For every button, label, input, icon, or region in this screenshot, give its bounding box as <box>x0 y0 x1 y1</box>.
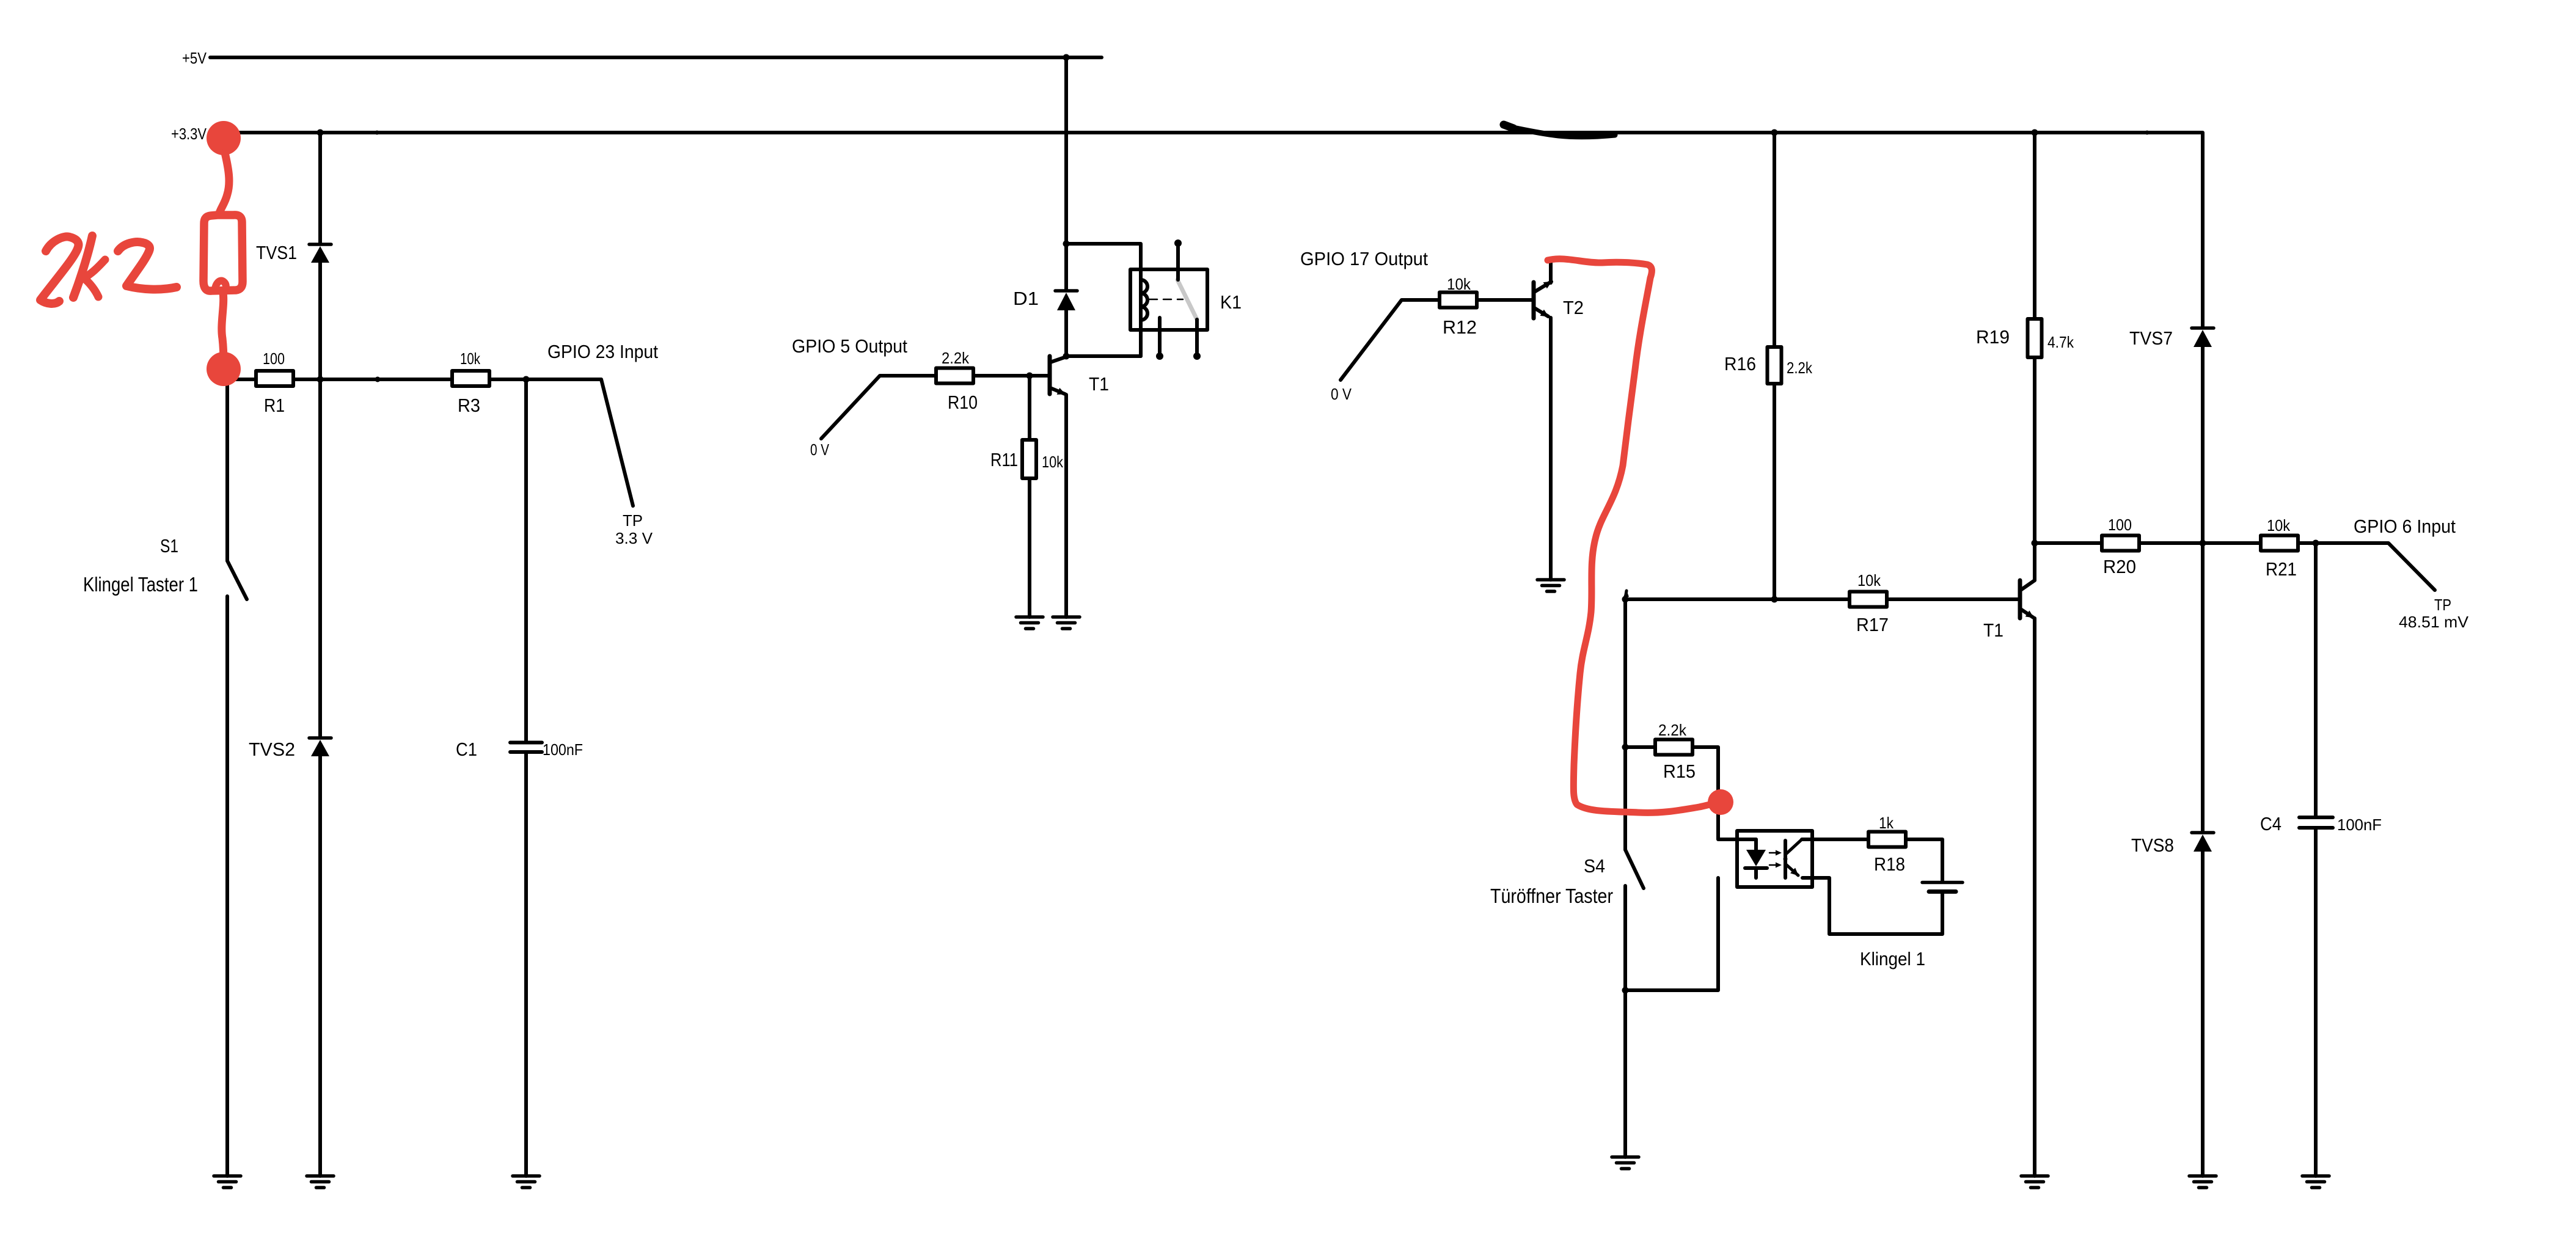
wire S4 branch upper <box>1623 599 1627 850</box>
node junction T1 collector / relay coil bottom <box>1063 353 1070 360</box>
wire C1 branch upper <box>524 379 528 741</box>
wire TVS1 branch upper <box>318 133 322 243</box>
relay K1 switch blade (grey) <box>1177 280 1197 319</box>
svg-text:T1: T1 <box>1983 619 2003 641</box>
svg-text:2.2k: 2.2k <box>1658 721 1687 739</box>
svg-text:+3.3V: +3.3V <box>171 125 207 143</box>
node stray dot on rail <box>375 131 379 135</box>
ground R11 <box>1016 617 1043 629</box>
+3.3V rail wire <box>210 133 2203 243</box>
node junction +5V / relay branch <box>1063 54 1070 61</box>
svg-text:2.2k: 2.2k <box>942 349 970 367</box>
relay K1 NC pin bottom middle <box>1158 318 1162 356</box>
node junction R11 branch <box>1026 373 1033 379</box>
svg-text:TVS1: TVS1 <box>256 242 297 263</box>
red annotation: node dot on +3.3V rail <box>40 121 1733 815</box>
wire R16 branch upper <box>1773 133 1776 345</box>
resistor R1 <box>256 371 293 386</box>
svg-text:GPIO 6 Input: GPIO 6 Input <box>2354 516 2456 537</box>
hand-drawn black correction on rail <box>1504 126 1615 137</box>
svg-text:R19: R19 <box>1976 326 2010 348</box>
wire R15 to opto anode <box>1692 747 1756 839</box>
optocoupler LED <box>1745 839 1767 878</box>
wire R11 to ground <box>1028 480 1031 617</box>
svg-text:TP: TP <box>2434 596 2451 614</box>
svg-text:GPIO 23 Input: GPIO 23 Input <box>547 341 658 362</box>
wire T1 emitter to ground <box>2033 618 2036 1176</box>
resistor R19 (vertical) <box>2028 319 2042 357</box>
svg-text:0 V: 0 V <box>810 440 830 459</box>
ground T1 right <box>2021 1176 2048 1188</box>
red annotation: node dot at S1/R1 junction <box>207 352 241 386</box>
node junction R15 tap <box>1622 744 1629 751</box>
wire C4 to ground <box>2314 828 2318 1176</box>
battery Klingel 1 <box>1922 883 1963 892</box>
wire TVS7 to TVS8 <box>2201 347 2205 831</box>
node junction R19 / R20 wire <box>2032 540 2038 547</box>
node junction rail/TVS1 <box>317 130 324 136</box>
wire R19 to R20 node <box>2033 359 2036 543</box>
node junction TVS line / R1 wire <box>317 376 324 383</box>
wire R21 to GPIO6 TP lead <box>2298 543 2435 590</box>
wire R18 to battery top <box>1906 839 1942 881</box>
wire +5V down to relay section <box>1064 57 1068 244</box>
resistor R12 <box>1440 293 1477 308</box>
wire relay coil bottom feed <box>1066 354 1141 358</box>
red annotation: long marker line from T2 collector to S4 node <box>1548 259 1720 813</box>
svg-text:T1: T1 <box>1089 373 1109 395</box>
red annotation: handwritten 2 <box>40 236 78 304</box>
relay K1 box <box>1130 269 1207 330</box>
wire TVS2 to ground <box>318 756 322 1176</box>
svg-text:Klingel Taster 1: Klingel Taster 1 <box>83 573 198 596</box>
red annotation: hand-drawn resistor body <box>203 215 243 291</box>
wire R11 branch upper <box>1028 376 1031 438</box>
svg-text:S4: S4 <box>1584 855 1605 877</box>
red annotation: handwritten k <box>73 236 92 298</box>
capacitor C4 <box>2299 817 2333 828</box>
red annotation: pen loop at resistor bottom <box>215 280 226 291</box>
wire R16 to base net <box>1773 385 1776 599</box>
wire S1/R1 net horizontal <box>224 378 254 381</box>
wire GPIO17 lead diagonal <box>1341 300 1441 380</box>
relay K1 common pin top <box>1176 243 1180 280</box>
svg-text:TVS7: TVS7 <box>2129 327 2173 349</box>
switch S4 lower wire <box>1623 886 1627 1157</box>
red annotation: lead squiggle resistor to node <box>222 293 224 364</box>
svg-text:10k: 10k <box>1857 571 1881 590</box>
svg-text:Türöffner Taster: Türöffner Taster <box>1490 885 1613 907</box>
pin dot bottom right <box>1193 352 1201 360</box>
svg-text:R20: R20 <box>2103 556 2136 577</box>
wire R1 to R3 <box>293 378 450 381</box>
svg-text:R11: R11 <box>990 449 1018 470</box>
svg-text:D1: D1 <box>1013 288 1039 309</box>
node junction rail/R19 <box>2032 130 2038 136</box>
TVS diode TVS2 <box>309 738 331 756</box>
svg-text:R3: R3 <box>458 395 480 416</box>
svg-text:K1: K1 <box>1220 291 1242 313</box>
wire battery bottom loop <box>1802 878 1942 934</box>
+5V rail wire <box>210 56 1102 59</box>
switch S1 blade <box>227 561 247 599</box>
svg-text:48.51 mV: 48.51 mV <box>2399 613 2469 631</box>
ground S4 <box>1612 1157 1639 1169</box>
capacitor C1 <box>510 743 542 753</box>
transistor T1 (left) <box>1050 356 1066 394</box>
svg-text:10k: 10k <box>1042 453 1064 471</box>
svg-text:10k: 10k <box>460 349 481 368</box>
wire TVS7 branch upper <box>2201 243 2205 326</box>
wire opto collector to R18 <box>1802 838 1868 841</box>
ground TVS8 <box>2189 1176 2216 1188</box>
svg-text:2.2k: 2.2k <box>1787 359 1813 377</box>
ground TVS2 <box>307 1176 334 1188</box>
switch S1 lower wire <box>225 596 229 1176</box>
svg-text:TP: TP <box>623 511 643 530</box>
wire TVS8 to ground <box>2201 852 2205 1176</box>
TVS diode TVS7 <box>2192 328 2214 347</box>
wire C4 branch upper <box>2314 543 2318 816</box>
wire R19 branch upper <box>2033 133 2036 317</box>
svg-text:100nF: 100nF <box>543 740 583 759</box>
red annotation: node dot at R15/opto junction <box>1708 789 1733 815</box>
node junction S4 branch corner <box>1622 596 1629 603</box>
ground S1 <box>214 1176 241 1188</box>
node junction C1 branch <box>523 376 530 383</box>
wire opto cathode return <box>1625 878 1718 990</box>
svg-text:100nF: 100nF <box>2337 816 2382 834</box>
pin dot bottom middle <box>1156 352 1163 360</box>
svg-text:T2: T2 <box>1563 297 1584 318</box>
svg-text:C4: C4 <box>2260 813 2281 834</box>
pin dot top <box>1174 239 1182 247</box>
diode D1 <box>1055 291 1077 310</box>
svg-text:100: 100 <box>263 349 285 368</box>
node stray dot on R1-R3 wire <box>375 377 381 382</box>
wire R12 to T2 base <box>1477 298 1532 302</box>
switch S4 blade <box>1625 850 1644 888</box>
wire R20 to R21 <box>2139 541 2259 545</box>
svg-text:R18: R18 <box>1874 853 1905 875</box>
resistor R21 <box>2261 536 2298 551</box>
svg-text:TVS8: TVS8 <box>2131 834 2174 856</box>
resistor R17 <box>1850 592 1887 607</box>
optocoupler phototransistor <box>1784 839 1802 878</box>
relay K1 NO pin bottom right <box>1195 319 1199 356</box>
wire R20 net <box>2035 541 2100 545</box>
resistor R20 <box>2102 536 2139 551</box>
switch S1 upper wire <box>225 379 229 561</box>
resistor R15 <box>1655 740 1692 755</box>
resistor R16 (vertical) <box>1768 347 1782 384</box>
wire R15 left lead <box>1625 745 1653 749</box>
wire base net S4 corner to R17 <box>1625 597 1848 601</box>
node junction C4 branch <box>2313 540 2319 547</box>
wire D1 to T1 collector node <box>1064 310 1068 356</box>
optocoupler U1 box <box>1737 831 1812 887</box>
ground C1 <box>513 1176 540 1188</box>
wire TVS2 branch <box>318 379 322 736</box>
transistor T1 (right) <box>2020 580 2035 618</box>
svg-text:R10: R10 <box>948 392 978 413</box>
node junction rail/R16 <box>1771 130 1778 136</box>
relay K1 dashed actuator line <box>1149 299 1183 301</box>
red annotation: lead squiggle from rail to resistor <box>219 153 229 215</box>
svg-text:3.3 V: 3.3 V <box>615 529 653 547</box>
node junction R16 / R17 wire <box>1771 596 1778 603</box>
svg-text:R12: R12 <box>1443 316 1477 338</box>
svg-text:100: 100 <box>2108 516 2132 534</box>
resistor R18 <box>1868 832 1906 847</box>
transistor T2 <box>1534 282 1551 318</box>
wire T1 collector up to R19 node <box>2033 543 2036 580</box>
wire relay coil top feed <box>1066 244 1141 356</box>
node stray dot on rail right <box>2145 131 2150 135</box>
wire R10 to T1 base <box>973 374 1048 378</box>
svg-text:R21: R21 <box>2266 558 2297 580</box>
ground T2 <box>1537 580 1564 591</box>
node junction TVS7 line crossing <box>2200 540 2206 547</box>
svg-text:S1: S1 <box>160 535 178 557</box>
svg-text:GPIO 5 Output: GPIO 5 Output <box>792 335 907 357</box>
wire T1 emitter to ground <box>1064 395 1068 617</box>
svg-text:Klingel 1: Klingel 1 <box>1860 948 1925 969</box>
svg-text:4.7k: 4.7k <box>2047 333 2074 351</box>
node tick at S4 corner <box>1625 591 1626 598</box>
svg-text:R16: R16 <box>1724 353 1756 374</box>
svg-text:1k: 1k <box>1879 814 1894 832</box>
resistor R10 <box>936 368 973 384</box>
resistor R3 <box>452 371 489 386</box>
wire R17 to T1 base <box>1887 597 2018 601</box>
svg-text:TVS2: TVS2 <box>249 739 295 760</box>
wire T2 collector stub up <box>1549 262 1553 283</box>
svg-text:R17: R17 <box>1856 614 1889 635</box>
TVS diode TVS1 <box>309 244 331 263</box>
node junction S4 / opto cathode return <box>1622 987 1629 994</box>
node junction relay coil top <box>1063 241 1070 247</box>
svg-text:C1: C1 <box>456 739 477 760</box>
relay K1 coil arcs <box>1141 280 1147 320</box>
wire TVS1 to R1 net <box>318 263 322 379</box>
optocoupler light arrows <box>1769 850 1782 868</box>
svg-text:0 V: 0 V <box>1331 385 1352 403</box>
TVS diode TVS8 <box>2192 833 2214 852</box>
wire T2 emitter to ground <box>1549 318 1553 580</box>
ground C4 <box>2302 1176 2329 1188</box>
wire D1 branch upper <box>1064 244 1068 289</box>
svg-text:GPIO 17 Output: GPIO 17 Output <box>1300 248 1428 269</box>
svg-text:R15: R15 <box>1663 761 1696 782</box>
red annotation: handwritten 2 (second) <box>118 242 177 290</box>
svg-text:10k: 10k <box>1447 275 1471 293</box>
wire GPIO5 lead diagonal <box>821 376 936 439</box>
svg-text:R1: R1 <box>264 395 285 416</box>
wire C1 to ground <box>524 752 528 1176</box>
wire R3 to GPIO23 TP lead <box>489 379 633 506</box>
resistor R11 (vertical) <box>1022 440 1036 478</box>
svg-text:10k: 10k <box>2267 516 2291 535</box>
svg-text:+5V: +5V <box>182 49 207 67</box>
ground T1 left <box>1053 617 1080 629</box>
